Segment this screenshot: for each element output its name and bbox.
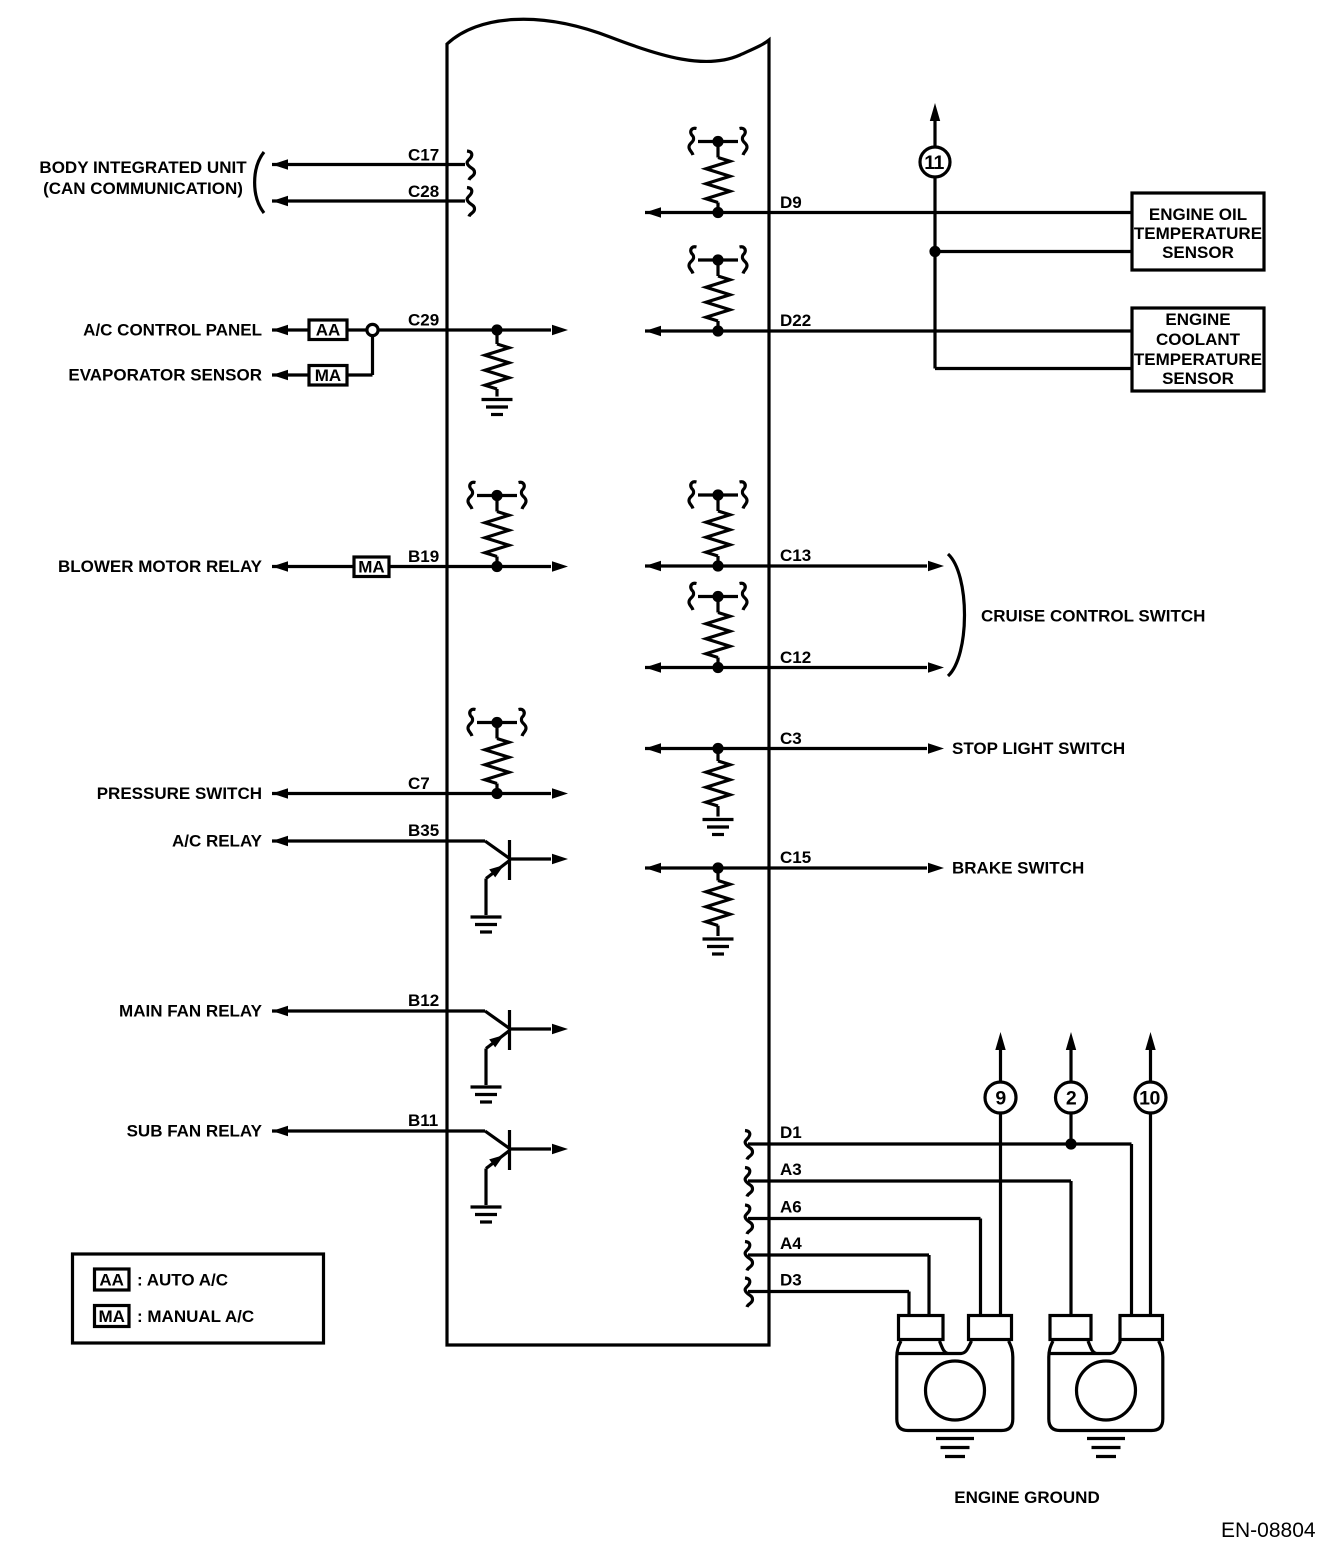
svg-text:D9: D9: [780, 193, 802, 212]
label ENGINE GROUND: [954, 1488, 1099, 1507]
svg-text:EN-08804: EN-08804: [1221, 1519, 1316, 1542]
svg-text:PRESSURE SWITCH: PRESSURE SWITCH: [97, 784, 262, 803]
pin label B35: [408, 821, 439, 840]
pin label D9: [780, 193, 802, 212]
svg-text:MA: MA: [315, 366, 341, 385]
svg-text:C7: C7: [408, 774, 430, 793]
label BLOWER MOTOR RELAY: [58, 557, 263, 576]
pin label A4: [780, 1234, 802, 1253]
pin label C12: [780, 648, 811, 667]
svg-text:BODY INTEGRATED UNIT: BODY INTEGRATED UNIT: [39, 158, 247, 177]
label CRUISE CONTROL SWITCH: [981, 607, 1205, 626]
svg-text:A6: A6: [780, 1198, 802, 1217]
svg-text:BRAKE SWITCH: BRAKE SWITCH: [952, 859, 1084, 878]
wire C17 to body integrated unit: [272, 159, 465, 169]
pull-up resistor on C7: [468, 709, 526, 799]
label SUB FAN RELAY: [127, 1122, 263, 1141]
wire B35 from A/C relay: [272, 836, 485, 846]
legend MA symbol: [95, 1306, 130, 1327]
ground symbol under lug 2: [1087, 1439, 1125, 1457]
svg-text:A3: A3: [780, 1160, 802, 1179]
wire C3 to stop light switch: [645, 743, 944, 753]
junction dot on C29: [491, 324, 502, 335]
wire D3: [748, 1292, 909, 1316]
pin label C28: [408, 182, 439, 201]
pull-up resistor on D9: [689, 128, 747, 218]
svg-text:9: 9: [995, 1088, 1006, 1110]
pin label B12: [408, 991, 439, 1010]
circled 10 wire with arrow: [1145, 1032, 1155, 1316]
svg-text:SENSOR: SENSOR: [1162, 243, 1234, 262]
circled 9 reference: [985, 1082, 1016, 1113]
transistor driver Q2 for main fan relay: [471, 1010, 569, 1102]
pin label C29: [408, 311, 439, 330]
wire to evaporator sensor: [272, 370, 309, 380]
svg-text:D22: D22: [780, 311, 811, 330]
svg-text:TEMPERATURE: TEMPERATURE: [1134, 350, 1262, 369]
circled 2 reference: [1056, 1082, 1087, 1113]
break squiggle at pin D3: [745, 1278, 753, 1307]
pin label A3: [780, 1160, 802, 1179]
circled 2 wire with arrow: [1066, 1032, 1076, 1144]
legend AA text: [137, 1271, 228, 1290]
svg-text:11: 11: [924, 152, 944, 174]
transistor driver Q3 for sub fan relay: [471, 1130, 569, 1222]
wire C15 to brake switch: [645, 863, 944, 873]
label MAIN FAN RELAY: [119, 1002, 263, 1021]
svg-text:C17: C17: [408, 146, 439, 165]
svg-text:B11: B11: [408, 1111, 438, 1130]
wire C12 to cruise control switch: [645, 662, 944, 672]
break squiggle at pin D1: [745, 1131, 753, 1160]
resistor to ground on C29: [485, 335, 509, 397]
svg-text:ENGINE GROUND: ENGINE GROUND: [954, 1488, 1099, 1507]
svg-text:10: 10: [1139, 1088, 1160, 1110]
wire C29 from A/C control panel: [272, 325, 309, 335]
pull-up resistor on B19: [468, 482, 526, 572]
wire A4: [748, 1255, 929, 1316]
figure number EN-08804: [1221, 1519, 1316, 1542]
wire B19 through module edge: [389, 561, 568, 571]
label PRESSURE SWITCH: [97, 784, 262, 803]
pin label C15: [780, 848, 811, 867]
wire A3: [748, 1181, 1071, 1316]
pull-up resistor on C12: [689, 583, 747, 673]
svg-text:EVAPORATOR SENSOR: EVAPORATOR SENSOR: [68, 366, 262, 385]
pull-down resistor on C3: [703, 743, 734, 835]
wire D9 to engine oil temperature sensor: [645, 207, 1132, 217]
pin label B11: [408, 1111, 438, 1130]
ground symbol under lug 1: [936, 1439, 974, 1457]
svg-text:CRUISE CONTROL SWITCH: CRUISE CONTROL SWITCH: [981, 607, 1205, 626]
svg-text:C28: C28: [408, 182, 439, 201]
break squiggle at pin C28: [467, 188, 475, 217]
svg-text:AA: AA: [99, 1271, 124, 1290]
svg-text:C3: C3: [780, 729, 802, 748]
circled 9 wire with arrow: [995, 1032, 1005, 1316]
svg-text:(CAN COMMUNICATION): (CAN COMMUNICATION): [43, 179, 243, 198]
label A/C CONTROL PANEL: [83, 321, 262, 340]
pin label C17: [408, 146, 439, 165]
wire A6: [748, 1219, 981, 1316]
circled 11 reference: [920, 147, 950, 177]
wire B12 from main fan relay: [272, 1006, 485, 1016]
bracket for body integrated unit: [255, 152, 264, 213]
connector terminal on lug 2 (D1/10): [1120, 1316, 1163, 1340]
wire D22 to engine coolant temperature sensor: [645, 326, 1132, 336]
sensor ground wire with arrow up: [930, 103, 940, 147]
svg-text:B35: B35: [408, 821, 439, 840]
wire AA box to node: [347, 328, 367, 331]
svg-text:TEMPERATURE: TEMPERATURE: [1134, 224, 1262, 243]
oil sensor ground wire: [935, 250, 1132, 253]
svg-text:AA: AA: [316, 320, 341, 339]
svg-text:A/C CONTROL PANEL: A/C CONTROL PANEL: [83, 321, 262, 340]
svg-text:MA: MA: [98, 1307, 124, 1326]
wire C29 through module edge: [378, 325, 568, 335]
sensor ground vertical wire: [933, 177, 936, 369]
svg-text:B12: B12: [408, 991, 439, 1010]
svg-text:: AUTO A/C: : AUTO A/C: [137, 1271, 228, 1290]
svg-text:B19: B19: [408, 547, 439, 566]
connector box AA on C29: [309, 320, 347, 340]
svg-text:: MANUAL A/C: : MANUAL A/C: [137, 1307, 254, 1326]
svg-text:C13: C13: [780, 546, 811, 565]
break squiggle at pin A6: [745, 1205, 753, 1234]
wire B11 from sub fan relay: [272, 1126, 485, 1136]
pull-up resistor on C13: [689, 482, 747, 572]
engine ground lug 2 body: [1049, 1341, 1163, 1431]
coolant sensor ground wire: [935, 367, 1132, 370]
transistor driver Q1 for A/C relay: [471, 840, 569, 932]
ECU control module outline (wavy-top box): [447, 19, 769, 1345]
svg-text:SUB FAN RELAY: SUB FAN RELAY: [127, 1122, 263, 1141]
pin label C7: [408, 774, 430, 793]
connector box MA on evaporator wire: [309, 366, 347, 386]
pull-down resistor on C15: [703, 862, 734, 954]
connector terminal on lug 1 (A6/9): [969, 1316, 1012, 1340]
ground symbol C29: [482, 400, 513, 415]
label A/C RELAY: [172, 832, 263, 851]
wire B19 from blower motor relay: [272, 561, 354, 571]
break squiggle at pin A4: [745, 1242, 753, 1271]
svg-text:D1: D1: [780, 1123, 802, 1142]
connector terminal on lug 1 (D3/A4): [899, 1316, 944, 1340]
svg-text:D3: D3: [780, 1271, 802, 1290]
box ENGINE OIL TEMPERATURE SENSOR: [1132, 193, 1264, 270]
wire D1: [748, 1144, 1132, 1316]
pin label D22: [780, 311, 811, 330]
bracket cruise control switch: [948, 554, 965, 676]
box ENGINE COOLANT TEMPERATURE SENSOR: [1132, 308, 1264, 391]
pin label D1: [780, 1123, 802, 1142]
connector box MA on B19: [354, 557, 389, 577]
junction dot D1 to circled 2: [1065, 1138, 1076, 1149]
pin label A6: [780, 1198, 802, 1217]
legend MA text: [137, 1307, 254, 1326]
pin label C13: [780, 546, 811, 565]
svg-text:COOLANT: COOLANT: [1156, 330, 1241, 349]
wire C7 from pressure switch: [272, 788, 568, 798]
svg-text:A4: A4: [780, 1234, 802, 1253]
svg-text:SENSOR: SENSOR: [1162, 369, 1234, 388]
legend AA symbol: [95, 1269, 130, 1290]
svg-text:C29: C29: [408, 311, 439, 330]
label BRAKE SWITCH: [952, 859, 1084, 878]
svg-text:ENGINE: ENGINE: [1165, 310, 1230, 329]
label EVAPORATOR SENSOR: [68, 366, 262, 385]
pin label C3: [780, 729, 802, 748]
engine ground lug 1 body: [897, 1341, 1013, 1431]
label STOP LIGHT SWITCH: [952, 739, 1125, 758]
wire C28 to body integrated unit: [272, 196, 465, 206]
legend box: [73, 1254, 324, 1343]
junction dot to oil sensor ground: [929, 246, 940, 257]
svg-text:C15: C15: [780, 848, 811, 867]
svg-text:STOP LIGHT SWITCH: STOP LIGHT SWITCH: [952, 739, 1125, 758]
wire C13 to cruise control switch: [645, 561, 944, 571]
pull-up resistor on D22: [689, 247, 747, 337]
svg-text:BLOWER MOTOR RELAY: BLOWER MOTOR RELAY: [58, 557, 263, 576]
svg-text:A/C RELAY: A/C RELAY: [172, 832, 263, 851]
svg-text:2: 2: [1066, 1088, 1077, 1110]
svg-text:MA: MA: [358, 557, 384, 576]
svg-text:MAIN FAN RELAY: MAIN FAN RELAY: [119, 1002, 263, 1021]
svg-text:C12: C12: [780, 648, 811, 667]
pin label D3: [780, 1271, 802, 1290]
pin label B19: [408, 547, 439, 566]
wire MA box to node: [347, 336, 373, 376]
break squiggle at pin A3: [745, 1168, 753, 1197]
connector terminal on lug 2 (A3): [1050, 1316, 1091, 1340]
circled 10 reference: [1135, 1082, 1166, 1113]
label BODY INTEGRATED UNIT: [39, 158, 247, 198]
break squiggle at pin C17: [467, 151, 475, 180]
svg-text:ENGINE OIL: ENGINE OIL: [1149, 205, 1247, 224]
node circle on C29: [367, 324, 378, 335]
